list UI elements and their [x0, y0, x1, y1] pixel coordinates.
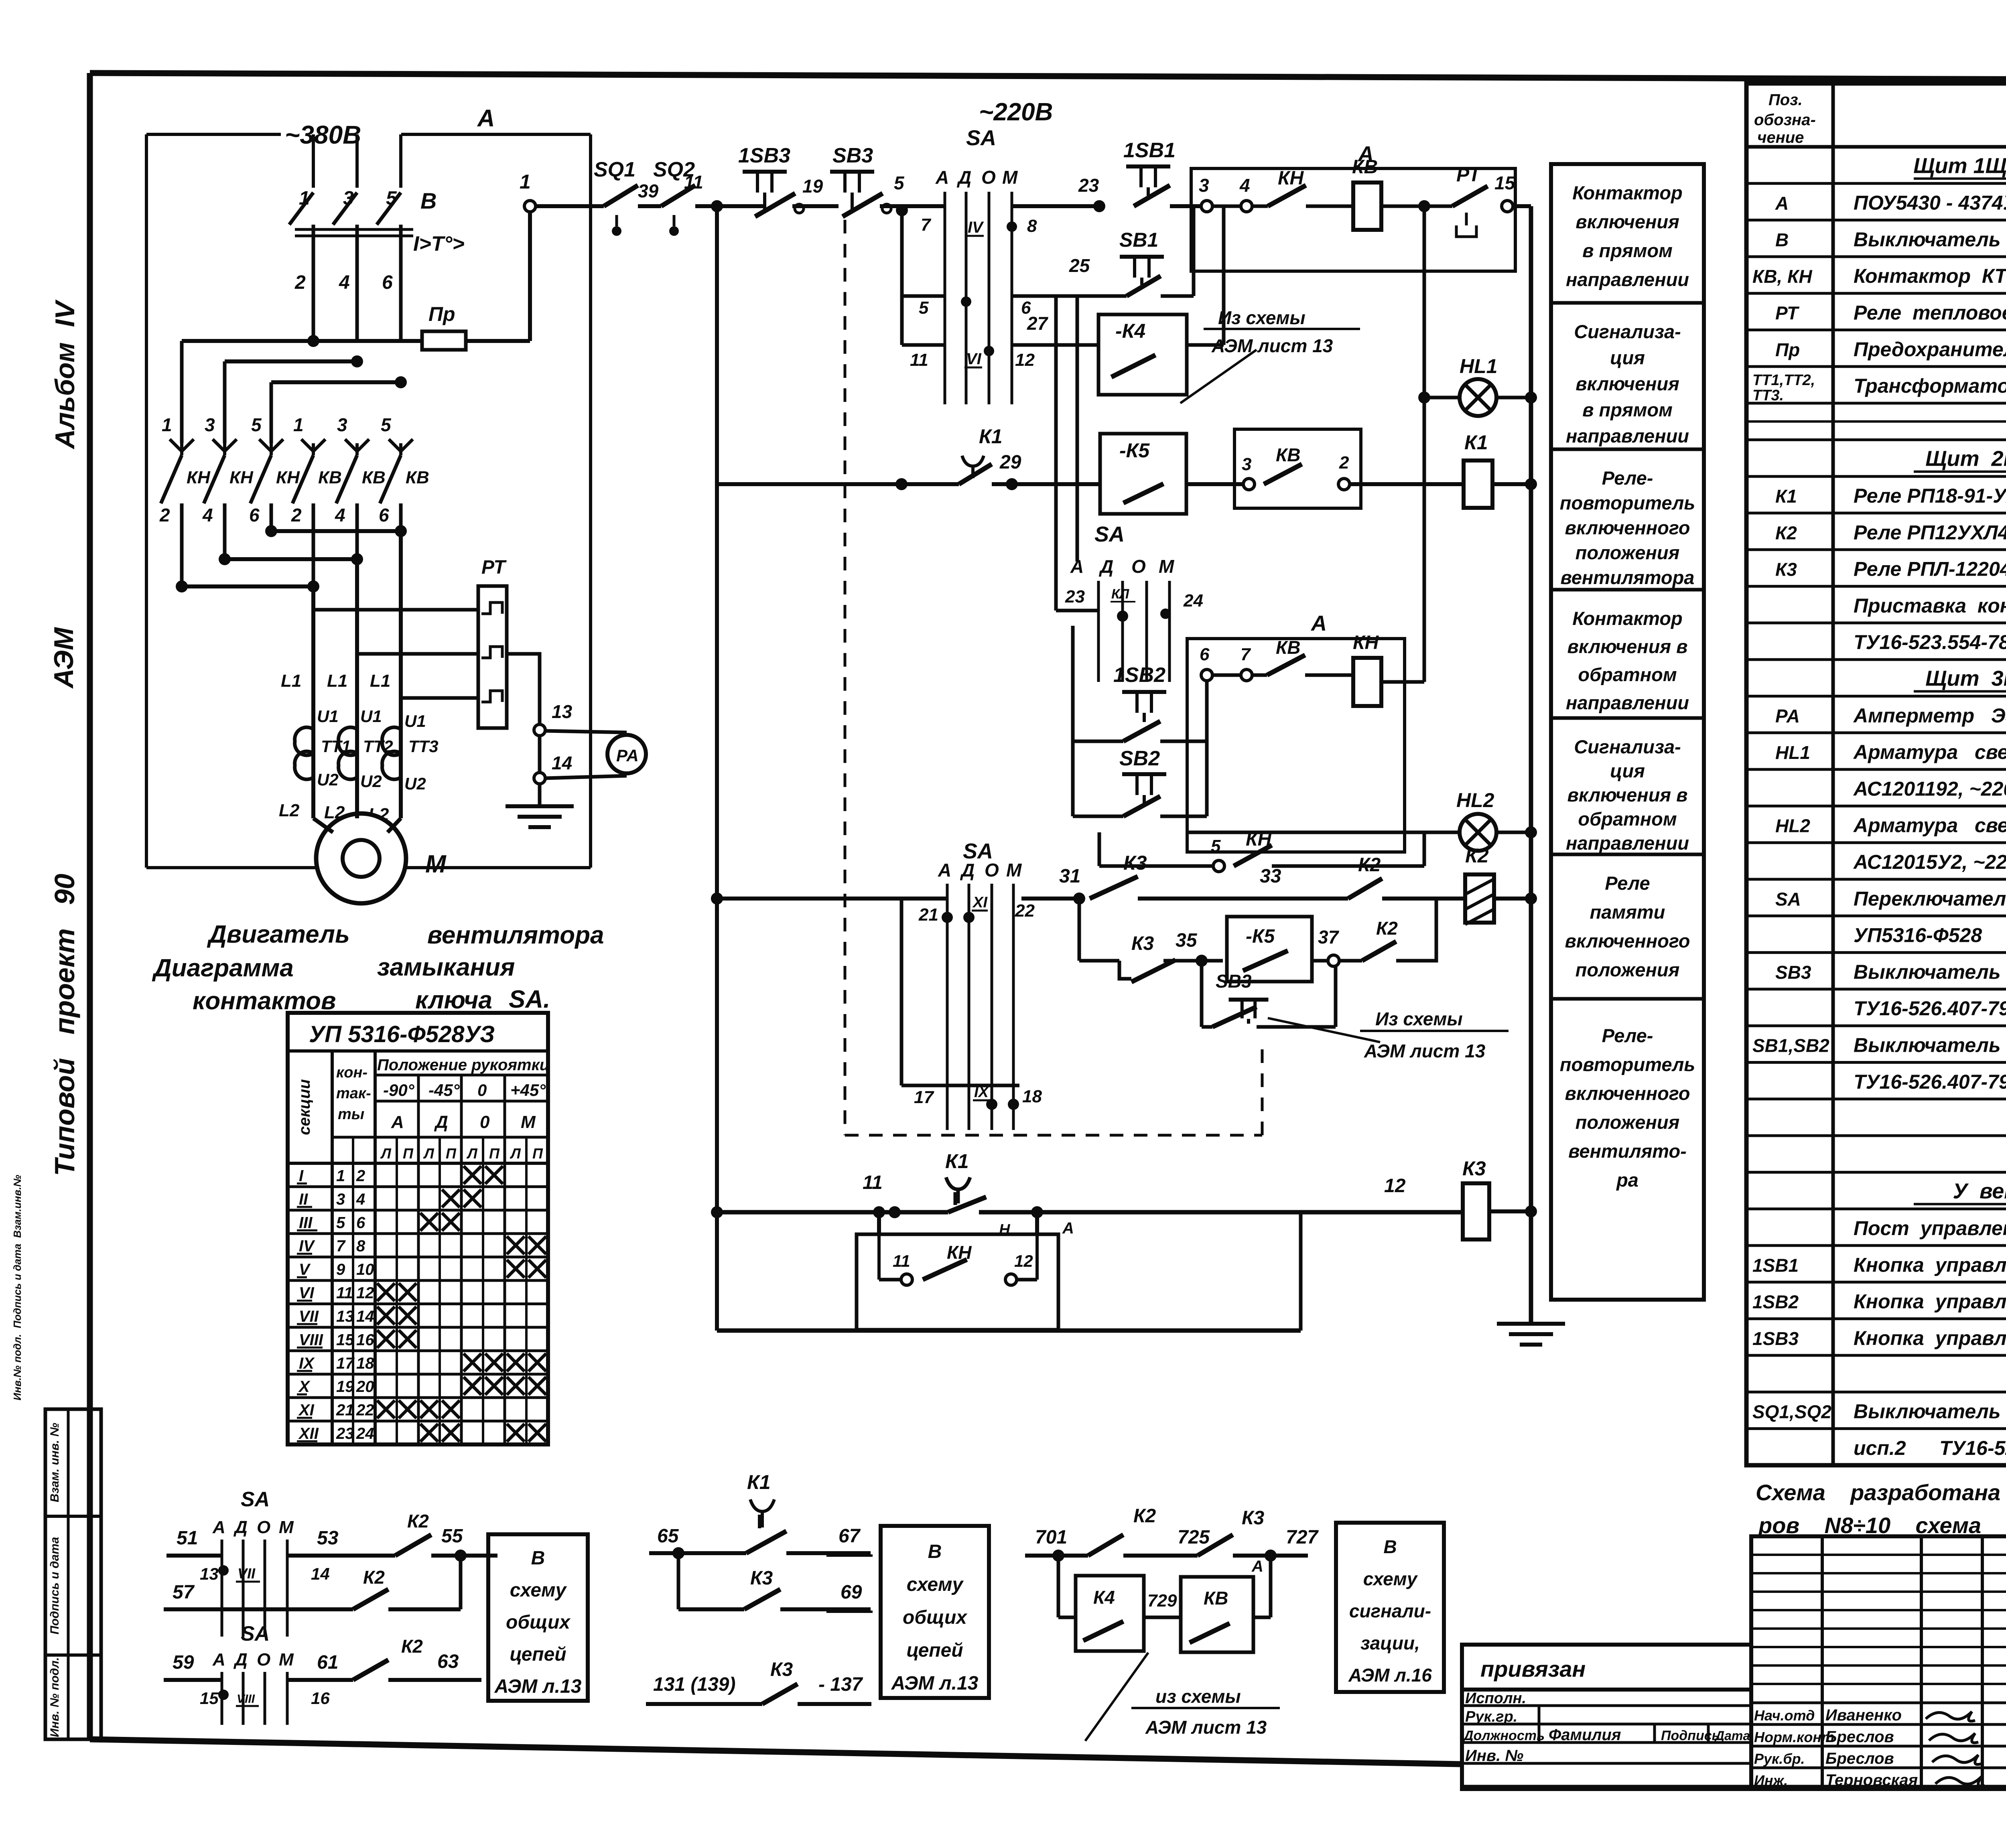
interlock box -K5 rung4 — [1100, 434, 1186, 514]
svg-text:АС12015У2, ~220В, ТУ16-535.930: АС12015У2, ~220В, ТУ16-535.930-76 — [1853, 851, 2006, 873]
svg-text:5: 5 — [336, 1214, 345, 1231]
KN holding rung wire — [1099, 864, 1213, 868]
svg-text:включенного: включенного — [1565, 517, 1690, 538]
svg-text:29: 29 — [999, 452, 1021, 473]
svg-text:Двигатель: Двигатель — [207, 921, 350, 948]
SA key table row VII X mark col 1 — [377, 1307, 395, 1325]
wire SB1 to riser — [1161, 294, 1194, 298]
signal lamp HL2 — [1460, 814, 1496, 851]
svg-text:включенного: включенного — [1565, 1083, 1690, 1104]
circuit breaker B poles — [312, 134, 315, 188]
svg-text:направлении: направлении — [1566, 425, 1689, 446]
cross connection wire y1394 — [225, 557, 357, 561]
wire 725 — [1123, 1554, 1198, 1558]
svg-text:4: 4 — [1239, 175, 1250, 196]
svg-text:вентилято-: вентилято- — [1568, 1140, 1687, 1162]
svg-text:КВ: КВ — [362, 468, 386, 487]
branch verticals to cross wires — [180, 529, 184, 586]
svg-text:цепей: цепей — [510, 1644, 566, 1665]
wire rung5 to K2 contact — [1138, 897, 1348, 901]
svg-text:Кнопка управления КУ,2,1з+1р: Кнопка управления КУ,2,1з+1р „вперед” — [1854, 1254, 2006, 1276]
svg-text:М: М — [279, 1517, 294, 1537]
wire KN to KV coil — [1306, 205, 1353, 208]
svg-text:Выключатель А3726 ФУ3: Выключатель А3726 ФУ3 — [1854, 228, 2006, 251]
limit switch SQ2 — [661, 185, 695, 206]
wire K2 contact to K2 coil — [1382, 897, 1465, 901]
rung K2 memory wire from SA group3 — [1021, 897, 1083, 901]
node 6 circle — [1201, 669, 1212, 681]
svg-text:15: 15 — [336, 1331, 354, 1349]
svg-text:вентилятора: вентилятора — [1561, 567, 1695, 588]
svg-text:обратном: обратном — [1578, 664, 1677, 685]
riser KN holding to HL2 rung — [1423, 832, 1426, 866]
svg-text:УП5316-Ф528 ТУ16-524.074-7: УП5316-Ф528 ТУ16-524.074-75 — [1854, 924, 2006, 947]
wire node5 rung to 23 — [1012, 204, 1099, 208]
function label divider 4 — [1551, 716, 1704, 720]
left feeder verticals — [180, 341, 184, 443]
svg-text:Д: Д — [956, 167, 971, 188]
SA key table row XII line — [288, 1420, 548, 1422]
SA key table row IX X mark col 7 — [507, 1353, 524, 1371]
distribution wire y953 — [271, 380, 401, 384]
svg-text:В: В — [420, 188, 437, 213]
svg-text:К3: К3 — [1462, 1157, 1486, 1180]
junction dot 35 — [1196, 955, 1208, 967]
wire 1SB3 to SB3 — [792, 204, 839, 208]
svg-text:М: М — [1006, 860, 1022, 880]
riser 1SB2 left — [1071, 626, 1075, 816]
svg-text:SB3: SB3 — [1216, 971, 1252, 992]
svg-text:КН: КН — [187, 468, 211, 487]
contact KV reverse — [1267, 655, 1305, 675]
svg-text:SQ1,SQ2: SQ1,SQ2 — [1752, 1402, 1831, 1422]
SA key table row VIII X mark col 2 — [399, 1330, 416, 1348]
svg-text:13: 13 — [200, 1564, 219, 1583]
svg-text:К2: К2 — [363, 1567, 385, 1588]
svg-text:22: 22 — [356, 1402, 374, 1419]
SA key table row XII X mark col 3 — [420, 1424, 438, 1442]
SA key table row III line — [288, 1209, 548, 1211]
wire 12 to right in KN box — [1017, 1278, 1037, 1282]
function label divider 2 — [1551, 448, 1704, 451]
svg-text:схему: схему — [907, 1574, 964, 1595]
node 4 circle — [1241, 201, 1252, 212]
junction dot 3550 top rung — [1418, 200, 1430, 212]
SA key table row II X mark col 4 — [442, 1189, 460, 1207]
svg-text:положения: положения — [1576, 1112, 1680, 1133]
svg-text:К1: К1 — [945, 1150, 969, 1172]
SA key table row XI X mark col 3 — [420, 1400, 438, 1418]
title block revision thin rows — [1751, 1554, 2006, 1556]
svg-text:VI: VI — [966, 350, 982, 368]
svg-text:11: 11 — [336, 1284, 353, 1302]
wire K3 rung6 to node35 — [1163, 959, 1223, 963]
svg-text:АЭМ лист 13: АЭМ лист 13 — [1211, 335, 1333, 356]
svg-text:24: 24 — [356, 1425, 374, 1442]
svg-text:Нач.отд: Нач.отд — [1754, 1707, 1815, 1724]
svg-text:К2: К2 — [1376, 918, 1398, 939]
svg-text:Реле РП12УХЛ4, 220В ТУ16-523.: Реле РП12УХЛ4, 220В ТУ16-523.072-75 — [1854, 521, 2006, 544]
wire node1 to SQ1 — [535, 204, 604, 208]
relay coil KV — [1353, 183, 1381, 230]
svg-text:Переключатель универсальный: Переключатель универсальный — [1854, 887, 2006, 910]
svg-text:КВ: КВ — [1276, 444, 1301, 465]
svg-text:К2: К2 — [1465, 844, 1489, 867]
svg-text:- 137: - 137 — [818, 1674, 863, 1695]
relay coil K3 — [1463, 1183, 1489, 1239]
svg-text:Д: Д — [434, 1112, 448, 1132]
wire KV to KN coil — [1305, 673, 1354, 677]
contactor forward box A1 — [1191, 168, 1515, 271]
svg-text:О: О — [257, 1650, 270, 1669]
svg-text:Л: Л — [510, 1145, 521, 1162]
wire 4 to KN contact — [1252, 205, 1268, 208]
svg-text:2: 2 — [356, 1167, 365, 1185]
svg-text:К3: К3 — [1242, 1507, 1265, 1529]
annotation pointer bottom left — [1085, 1653, 1148, 1741]
left rail junction dots — [711, 893, 723, 905]
component table outer rect — [1746, 83, 2006, 1465]
SA key table row I X mark col 6 — [485, 1166, 503, 1184]
svg-text:SA: SA — [241, 1622, 270, 1645]
dashed mechanical link horizontal — [845, 1134, 1262, 1137]
title block revision column block — [1751, 1536, 2006, 1789]
riser 3550 from top rung to KN coil rung — [1423, 206, 1426, 682]
svg-text:SB1: SB1 — [1119, 229, 1158, 251]
node 37 circle — [1328, 955, 1339, 966]
row A node 13 dot — [218, 1565, 229, 1576]
svg-text:привязан: привязан — [1480, 1656, 1586, 1682]
svg-text:так-: так- — [336, 1085, 371, 1102]
svg-text:27: 27 — [1027, 313, 1049, 334]
svg-text:2: 2 — [294, 272, 306, 293]
svg-text:Реле-: Реле- — [1602, 1025, 1653, 1046]
svg-text:23: 23 — [336, 1425, 354, 1442]
svg-text:SA: SA — [1094, 522, 1125, 546]
svg-text:L1: L1 — [281, 671, 301, 691]
row C node 15 dot — [218, 1690, 229, 1700]
limit switch SQ1 — [604, 185, 638, 206]
svg-text:Инж.: Инж. — [1754, 1772, 1788, 1789]
svg-text:1: 1 — [520, 170, 531, 193]
contact inside -K5 rung4 — [1123, 484, 1163, 503]
title block privyazan box — [1462, 1645, 1751, 1690]
SA key table row V X mark col 7 — [507, 1260, 524, 1278]
svg-text:21: 21 — [918, 905, 938, 925]
group3 rung 21-22 wire — [717, 897, 947, 901]
wire 3 to 4 — [1212, 205, 1241, 208]
SA group3 ticks — [946, 884, 949, 1130]
svg-text:обозна-: обозна- — [1754, 111, 1816, 129]
SB3 second contact — [1212, 1007, 1257, 1027]
svg-text:АЭМ л.16: АЭМ л.16 — [1348, 1665, 1432, 1686]
svg-text:Дата: Дата — [1714, 1728, 1750, 1743]
svg-text:РА: РА — [616, 746, 639, 765]
svg-text:КВ: КВ — [1352, 156, 1378, 178]
svg-text:Схема разработана для ве: Схема разработана для вентилятора N7, дл… — [1756, 1480, 2006, 1505]
svg-text:729: 729 — [1147, 1591, 1177, 1611]
wire 69 — [780, 1607, 871, 1611]
svg-text:7: 7 — [921, 215, 932, 235]
svg-text:14: 14 — [552, 753, 572, 773]
wire KN holding to riser — [1272, 864, 1424, 868]
svg-text:Щит 2Щ. Панель 5(6): Щит 2Щ. Панель 5(6) — [1925, 447, 2006, 471]
svg-text:включения в: включения в — [1567, 784, 1687, 805]
svg-text:-К5: -К5 — [1246, 926, 1275, 947]
SA key table row X X mark col 6 — [485, 1377, 503, 1395]
button SB2 — [1122, 772, 1166, 776]
svg-text:19: 19 — [336, 1378, 354, 1396]
wire SQ2 to 1SB3 — [695, 204, 764, 208]
svg-text:К3: К3 — [750, 1568, 773, 1589]
riser 2632 SB1 rung to SA group2 — [1054, 296, 1058, 611]
svg-text:О: О — [981, 167, 996, 188]
svg-text:секции: секции — [296, 1079, 313, 1135]
node 12 circle in KN box — [1005, 1274, 1017, 1285]
contact KN in box — [923, 1260, 967, 1280]
svg-text:SB3: SB3 — [832, 144, 873, 167]
wire K3 rung 69 — [678, 1607, 744, 1611]
SA key table row II line — [288, 1185, 548, 1188]
SA key table row VI X mark col 2 — [399, 1283, 416, 1301]
junction dot 23 — [1093, 200, 1105, 212]
contact K2 rung6 — [1362, 941, 1396, 961]
title left lower box — [1462, 1645, 1751, 1789]
svg-text:Из схемы: Из схемы — [1375, 1008, 1463, 1029]
SA key table row XII X mark col 8 — [528, 1424, 546, 1442]
svg-text:повторитель: повторитель — [1560, 492, 1695, 513]
svg-text:Щит 3Щ. Панель 3(4): Щит 3Щ. Панель 3(4) — [1925, 667, 2006, 691]
wire K5 box to box A2 — [1186, 482, 1243, 486]
ammeter PA circle — [607, 735, 646, 773]
wire node14 to ammeter bottom — [545, 776, 627, 778]
svg-text:чение: чение — [1757, 129, 1804, 146]
svg-text:АЭМ л.13: АЭМ л.13 — [891, 1673, 979, 1694]
svg-text:КН: КН — [947, 1242, 972, 1263]
svg-text:Контактор КТ 6033 СУ3: Контактор КТ 6033 СУ3 — [1854, 265, 2006, 287]
svg-text:В: В — [1383, 1536, 1397, 1557]
node 2 circle rung4 — [1338, 479, 1350, 490]
RT output wire to node 13 — [507, 654, 540, 724]
svg-text:направлении: направлении — [1566, 692, 1689, 713]
SA key table row V line — [288, 1256, 548, 1258]
relay coil K2 hatched — [1465, 874, 1494, 923]
svg-text:3: 3 — [337, 414, 347, 435]
svg-text:SA: SA — [241, 1488, 270, 1511]
svg-text:SQ1: SQ1 — [594, 158, 636, 181]
svg-text:4: 4 — [202, 505, 213, 525]
wire K1 holding to K3 coil — [979, 1210, 1463, 1215]
svg-text:24: 24 — [1183, 591, 1203, 611]
wire K1 coil to rail — [1492, 482, 1531, 486]
svg-text:Пост управления ПКУ15-19.131: Пост управления ПКУ15-19.131-54У2 — [1854, 1217, 2006, 1239]
svg-text:К1: К1 — [979, 425, 1003, 448]
svg-text:U1: U1 — [404, 712, 426, 730]
svg-text:5: 5 — [381, 414, 392, 435]
svg-text:23: 23 — [1065, 587, 1085, 607]
reference box V shemu obshchikh 1 — [488, 1534, 588, 1701]
svg-text:ключа: ключа — [415, 986, 492, 1014]
svg-text:Контактор: Контактор — [1572, 608, 1683, 629]
contact KV inside — [1190, 1623, 1230, 1643]
svg-text:вентилятора: вентилятора — [427, 921, 604, 949]
svg-text:Рук.бр.: Рук.бр. — [1754, 1751, 1805, 1767]
SA key table row VI line — [288, 1279, 548, 1282]
svg-text:Взам. инв. №: Взам. инв. № — [48, 1423, 61, 1502]
SA key table row X X mark col 7 — [507, 1377, 524, 1395]
node 5 circle KN rung — [1213, 860, 1224, 872]
svg-text:VII: VII — [238, 1565, 256, 1582]
svg-text:63: 63 — [437, 1651, 459, 1672]
svg-text:Сигнализа-: Сигнализа- — [1574, 736, 1681, 757]
svg-text:11: 11 — [684, 172, 703, 193]
svg-text:1: 1 — [162, 414, 172, 435]
SA key table row IX X mark col 5 — [464, 1353, 481, 1371]
SA key table row VII X mark col 2 — [399, 1307, 416, 1325]
svg-text:1SB2: 1SB2 — [1752, 1292, 1799, 1312]
rung3 wire left — [902, 343, 945, 347]
svg-text:25: 25 — [1069, 255, 1090, 276]
button 1SB2 — [1122, 690, 1166, 694]
svg-text:1: 1 — [299, 188, 310, 209]
riser 701 to K4 — [1057, 1556, 1060, 1617]
svg-text:из схемы: из схемы — [1155, 1686, 1241, 1707]
svg-text:ров N8÷10 схема ана: ров N8÷10 схема аналогична. — [1758, 1513, 2006, 1538]
svg-text:Сигнализа-: Сигнализа- — [1574, 321, 1681, 342]
wire 14 to ground — [538, 784, 542, 791]
function label divider 6 — [1551, 997, 1704, 1001]
rung6 wire left — [1079, 959, 1119, 963]
breaker crossbar — [295, 228, 413, 231]
K1 holding rung wire — [717, 1210, 948, 1215]
svg-text:0: 0 — [480, 1112, 490, 1132]
wire rail to K1 contact — [717, 482, 959, 486]
junction dot 31 — [1073, 893, 1085, 905]
svg-text:Арматура светосигнальная: Арматура светосигнальная — [1853, 814, 2006, 837]
title block signature rows — [1751, 1702, 2006, 1704]
svg-text:Из схемы: Из схемы — [1218, 307, 1306, 328]
svg-text:VII: VII — [299, 1308, 319, 1325]
SA key table row V X mark col 8 — [528, 1260, 546, 1278]
node 11 circle in KN box — [901, 1274, 912, 1285]
svg-text:II: II — [299, 1191, 308, 1208]
svg-text:М: М — [279, 1650, 294, 1669]
junction dot tick3 rung3 — [984, 346, 994, 356]
svg-text:К3: К3 — [1775, 559, 1797, 580]
svg-text:HL2: HL2 — [1456, 789, 1494, 811]
junction dots group2 — [1117, 611, 1128, 622]
svg-text:53: 53 — [317, 1527, 339, 1549]
reference box V shemu signalizacii — [1336, 1523, 1444, 1692]
thermal relay RT box — [478, 586, 507, 728]
annotation pointer line bottom — [1268, 1018, 1380, 1042]
svg-text:Реле РПЛ-12204Б, 220В, ТУ16-52: Реле РПЛ-12204Б, 220В, ТУ16-523.554-78 — [1854, 558, 2006, 580]
SA key table row I X mark col 5 — [464, 1166, 481, 1184]
svg-text:Фамилия: Фамилия — [1549, 1726, 1621, 1744]
SA key table vertical seccii col — [331, 1051, 334, 1444]
svg-text:А: А — [935, 167, 949, 188]
SA key table row XI X mark col 4 — [442, 1400, 460, 1418]
svg-text:включенного: включенного — [1565, 930, 1690, 951]
svg-text:Л: Л — [423, 1145, 434, 1162]
svg-text:12: 12 — [1014, 1252, 1033, 1270]
svg-text:ты: ты — [338, 1106, 364, 1123]
svg-text:3: 3 — [1199, 175, 1209, 196]
wire 727 — [1233, 1554, 1308, 1558]
svg-text:А: А — [212, 1650, 225, 1669]
svg-text:ТУ16-526.407-79: ТУ16-526.407-79 — [1854, 997, 2006, 1020]
SA key table row XI X mark col 1 — [377, 1400, 395, 1418]
svg-text:направлении: направлении — [1566, 269, 1689, 290]
svg-text:А: А — [477, 105, 495, 132]
node 14 open circle — [534, 773, 545, 784]
svg-text:1SB3: 1SB3 — [1752, 1328, 1799, 1349]
svg-text:К4: К4 — [1093, 1587, 1115, 1608]
box K4 — [1076, 1576, 1144, 1651]
svg-text:1SB3: 1SB3 — [738, 144, 790, 167]
svg-text:3: 3 — [336, 1191, 345, 1208]
svg-text:КВ: КВ — [1204, 1588, 1228, 1609]
svg-text:КН: КН — [1353, 632, 1379, 653]
svg-text:КН: КН — [276, 468, 300, 487]
SA key table row VIII line — [288, 1326, 548, 1329]
contact KN on forward rung — [1268, 185, 1306, 206]
svg-text:К3: К3 — [1131, 933, 1154, 954]
bottom-left attachment boxes — [45, 1409, 101, 1739]
junction dot 29 — [1006, 478, 1018, 490]
wire 1SB2 rung — [1073, 740, 1123, 743]
svg-text:положения: положения — [1576, 542, 1680, 563]
node 15 circle — [1502, 201, 1513, 212]
svg-text:III: III — [299, 1214, 313, 1231]
svg-text:701: 701 — [1035, 1527, 1067, 1548]
contact inside -K4 — [1111, 355, 1155, 377]
svg-text:цепей: цепей — [906, 1640, 963, 1661]
svg-text:АЭМ лист 13: АЭМ лист 13 — [1145, 1717, 1267, 1738]
bottom return wire — [717, 1329, 1301, 1333]
svg-text:О: О — [1131, 556, 1146, 577]
svg-text:включения: включения — [1576, 373, 1679, 394]
wire node13 to ammeter — [545, 731, 627, 732]
svg-text:8: 8 — [1027, 216, 1037, 236]
svg-text:U2: U2 — [360, 772, 382, 791]
right side vertical of box A inner — [589, 339, 593, 343]
svg-text:2: 2 — [291, 505, 302, 525]
svg-text:VIII: VIII — [237, 1692, 255, 1706]
cross connection wire y1462 — [182, 584, 313, 588]
svg-text:ТТ1: ТТ1 — [321, 737, 351, 756]
dashed mechanical link SB3 vertical — [844, 220, 847, 1135]
svg-text:11: 11 — [893, 1252, 910, 1270]
svg-text:SB3: SB3 — [1775, 962, 1811, 983]
junction dot tick4 rung1 — [1007, 221, 1017, 232]
svg-text:9: 9 — [336, 1261, 345, 1278]
junction dot node 11 rung — [889, 1206, 901, 1218]
svg-text:XI: XI — [298, 1402, 315, 1419]
svg-text:К1: К1 — [1464, 431, 1488, 454]
svg-text:А: А — [938, 860, 951, 880]
SA key table row III X mark col 4 — [442, 1213, 460, 1231]
wire HL2 to rail — [1496, 831, 1531, 834]
HL1 rung wire — [1424, 396, 1460, 400]
svg-text:Арматура светосигнальная: Арматура светосигнальная — [1853, 741, 2006, 763]
annotation pointer line top — [1180, 350, 1257, 403]
node 3 circle rung4 — [1243, 479, 1255, 490]
wire rung4 to K1 coil — [1350, 482, 1464, 486]
wire 15 to right rail — [1513, 204, 1531, 208]
SA key table row X X mark col 8 — [528, 1377, 546, 1395]
svg-text:П: П — [403, 1145, 414, 1162]
